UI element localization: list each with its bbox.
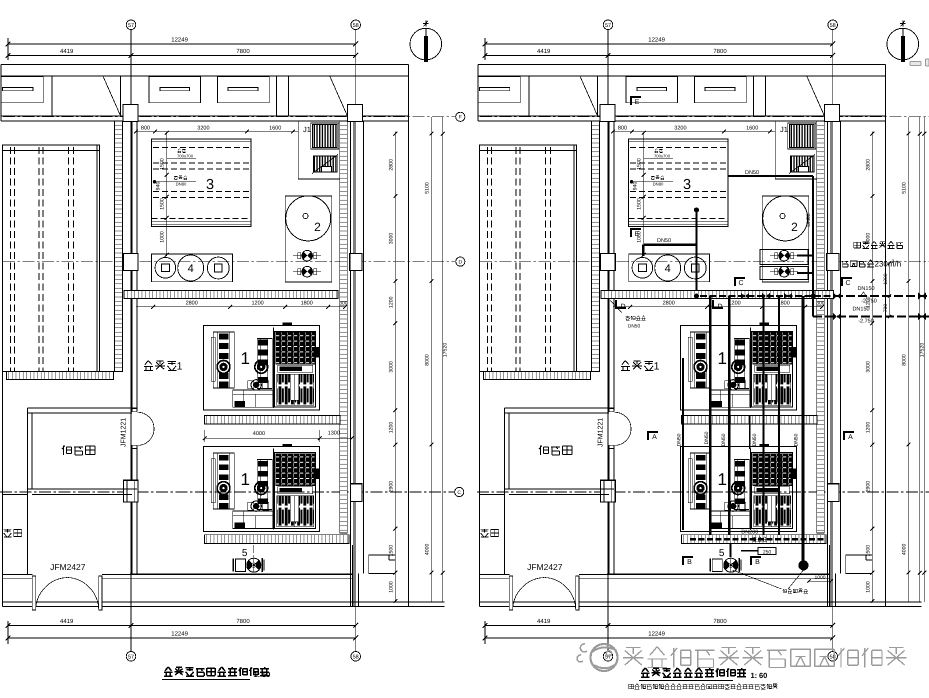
watermark logo [591, 644, 618, 671]
grid bubble F right [456, 112, 465, 121]
svg-text:DN150: DN150 [852, 307, 869, 313]
pump5 connection box [741, 550, 775, 552]
section mark A right [844, 432, 854, 440]
section mark D right [713, 300, 723, 308]
dim line 4000/1300 [205, 437, 352, 439]
label design flow [842, 261, 849, 267]
svg-text:A: A [848, 434, 853, 441]
section mark A left [648, 432, 658, 440]
svg-text:D: D [620, 304, 625, 311]
svg-text:-2.750: -2.750 [858, 319, 874, 325]
svg-text:1000: 1000 [814, 575, 825, 581]
watermark company name [623, 648, 644, 666]
svg-text:C: C [845, 280, 850, 287]
pipe exit lower DN150 [813, 315, 929, 317]
svg-text:700: 700 [883, 304, 889, 313]
feed water label [626, 316, 630, 320]
trench3 pipe [690, 538, 825, 540]
pipe item4 loop [643, 243, 696, 245]
svg-text:1:: 1: [751, 671, 758, 680]
section mark B right [751, 557, 761, 565]
svg-text:1200: 1200 [883, 273, 889, 284]
svg-text:F: F [459, 115, 462, 121]
pipe junction dots [811, 294, 815, 298]
svg-text:D: D [458, 259, 462, 265]
overall dim line right edge [923, 117, 925, 602]
pipe riser right (tank2) [812, 176, 814, 296]
dim 1000 [809, 580, 831, 582]
svg-text:E: E [635, 231, 640, 238]
svg-text:50: 50 [262, 670, 270, 679]
svg-text:DN50: DN50 [806, 213, 812, 226]
pipe exit upper DN150 [834, 295, 929, 297]
label ultrasonic heat meter [854, 242, 861, 248]
svg-text:E: E [635, 99, 640, 106]
svg-text:D: D [717, 304, 722, 311]
svg-text:DN50: DN50 [752, 433, 758, 446]
riser end cap [799, 561, 808, 570]
svg-text:DN50: DN50 [793, 433, 799, 446]
trench pipe valves [741, 293, 749, 299]
leader to water supply point [732, 570, 781, 589]
grid bubble C right [455, 487, 464, 496]
svg-text:DN50: DN50 [745, 170, 759, 176]
trench extension right [815, 291, 834, 299]
dim 1200/700 pipes [888, 263, 890, 317]
svg-text:DN150: DN150 [857, 286, 874, 292]
svg-text:250: 250 [763, 550, 772, 556]
title: piping layout plan [641, 668, 650, 677]
svg-text:DN50: DN50 [657, 238, 671, 244]
svg-text:1300: 1300 [328, 431, 340, 437]
svg-text:A: A [652, 434, 657, 441]
exit valves right edge [918, 293, 926, 300]
section mark B left [683, 557, 693, 565]
pipe tank3 bottom drop [695, 210, 697, 291]
section mark E tank3 [631, 229, 641, 237]
riser pipe x683 [682, 358, 684, 530]
svg-text:DN200: DN200 [741, 530, 758, 536]
right plan: piping layout [477, 20, 929, 661]
svg-text:/h: /h [895, 260, 902, 269]
section mark C right [842, 278, 852, 286]
svg-text:B: B [755, 559, 760, 566]
svg-text:-2.750: -2.750 [861, 299, 877, 305]
legend pill icons [910, 61, 921, 65]
svg-text:DN50: DN50 [704, 431, 710, 444]
svg-text:1:: 1: [254, 670, 261, 679]
pipe drop to pump 5 [729, 544, 731, 558]
svg-text:DN50: DN50 [721, 433, 727, 446]
main trench pipe [700, 295, 834, 297]
svg-text:C: C [738, 280, 743, 287]
svg-text:DN50: DN50 [628, 324, 641, 330]
riser pipes through skids [709, 296, 711, 535]
note text [629, 684, 634, 688]
grid bubble D right [456, 257, 465, 266]
section mark D left [616, 300, 626, 308]
left plan: equipment layout [0, 20, 455, 661]
svg-text:DN50: DN50 [677, 433, 683, 446]
section mark C left [735, 278, 745, 286]
title: equipment layout plan [164, 667, 172, 676]
meter box [760, 250, 808, 265]
svg-text:4000: 4000 [253, 431, 265, 437]
svg-text:C: C [457, 490, 461, 496]
pipe tank2 pump stubs [797, 255, 813, 257]
pipe DN50 tank3 to riser [728, 175, 813, 177]
svg-text:B: B [687, 559, 692, 566]
svg-text:60: 60 [759, 671, 767, 680]
section mark E band [631, 97, 641, 105]
